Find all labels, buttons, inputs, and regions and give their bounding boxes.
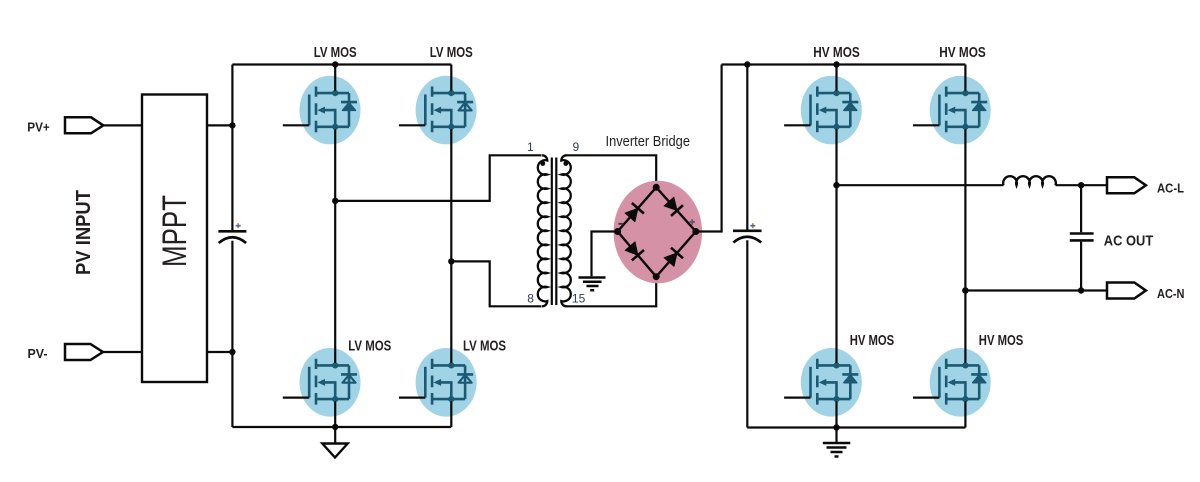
wire C3 branch top (1080, 185, 1082, 232)
svg-text:LV MOS: LV MOS (430, 44, 473, 61)
node HV leg1 midpoint (833, 182, 839, 188)
svg-text:1: 1 (527, 140, 534, 154)
connector J2 PV- (65, 344, 103, 360)
wire LV leg2 (450, 65, 452, 91)
svg-text:9: 9 (572, 140, 579, 154)
node HV bottom rail junction (833, 424, 839, 430)
svg-text:PV-: PV- (28, 346, 48, 361)
svg-text:LV MOS: LV MOS (348, 337, 391, 354)
transistor Q8 HV MOS lower-right (913, 348, 991, 417)
svg-text:HV MOS: HV MOS (850, 332, 895, 349)
connector J1 PV+ (65, 117, 103, 133)
wire HV leg2 mid to AC-N (965, 289, 1107, 291)
wire HV leg1 mid to inductor (837, 184, 1004, 186)
connector J3 AC-L (1107, 177, 1146, 193)
ground earth (HV) (835, 428, 837, 444)
wire C2 branch (746, 65, 748, 230)
svg-text:PV+: PV+ (27, 120, 50, 135)
diode D2 (top to right) (663, 196, 683, 216)
wire LV leg1 mid to transformer pin1 (335, 155, 541, 201)
wire HV top rail (722, 63, 966, 65)
svg-text:AC-N: AC-N (1157, 286, 1185, 301)
svg-text:AC OUT: AC OUT (1104, 233, 1153, 250)
svg-text:HV MOS: HV MOS (979, 332, 1024, 349)
label C2 plus (752, 223, 754, 228)
inverter bridge D1-D4 highlight (614, 181, 703, 284)
wire PV+ to MPPT (103, 124, 142, 126)
transistor Q3 LV MOS lower-left (283, 348, 361, 417)
ground earth (bridge) (579, 276, 606, 279)
node HV leg2 midpoint (962, 287, 968, 293)
transistor Q5 HV MOS upper-left (784, 76, 862, 145)
wire LV leg1 (334, 65, 336, 91)
MPPT block U1 (142, 95, 207, 383)
node MPPT out+ junction (229, 122, 235, 128)
node LV leg2 midpoint (448, 258, 454, 264)
inductor L1 (1003, 176, 1056, 185)
node T1 secondary polarity dot (563, 161, 568, 166)
node bridge top (653, 184, 660, 191)
node LV top rail junction (332, 61, 338, 67)
capacitor C2 (HV bus electrolytic) (733, 230, 762, 233)
svg-text:HV MOS: HV MOS (813, 44, 860, 61)
svg-text:PV INPUT: PV INPUT (73, 190, 95, 275)
svg-text:8: 8 (527, 291, 534, 305)
transistor Q4 LV MOS lower-right (399, 348, 477, 417)
wire LV top rail (232, 63, 451, 65)
transistor Q2 LV MOS upper-right (399, 76, 477, 145)
transistor Q7 HV MOS lower-left (784, 348, 862, 417)
label bridge minus sign (618, 223, 623, 225)
svg-text:MPPT: MPPT (156, 195, 194, 267)
node bridge plus (692, 228, 699, 235)
diode D4 (bottom to right) (663, 248, 683, 268)
label MPPT (156, 195, 194, 267)
node MPPT out- junction (229, 349, 235, 355)
node T1 primary polarity dot (540, 161, 545, 166)
node C2 top junction (744, 61, 750, 67)
svg-text:LV MOS: LV MOS (314, 44, 357, 61)
capacitor C3 (AC filter) (1070, 232, 1094, 235)
wire T1 pin9 to bridge top (567, 155, 657, 187)
transistor Q6 HV MOS upper-right (913, 76, 991, 145)
node HV leg2 AC-N junction (962, 287, 968, 293)
wire MPPT out- (207, 351, 232, 353)
node bridge minus (614, 228, 621, 235)
wire C3 branch bottom (1080, 242, 1082, 291)
wire MPPT out+ (207, 124, 232, 126)
node bridge bottom (653, 273, 660, 280)
transformer T1 primary winding (538, 155, 547, 306)
node HV leg1 top junction (833, 61, 839, 67)
label bridge plus sign (689, 219, 695, 225)
svg-text:AC-L: AC-L (1157, 181, 1184, 196)
label PV INPUT (73, 190, 95, 275)
diode D1 (left to top) (624, 203, 644, 223)
wire HV bottom rail (747, 426, 965, 428)
wire HV leg2 (964, 65, 966, 91)
diode D3 (left to bottom) (624, 241, 644, 261)
node AC-L junction (1078, 182, 1084, 188)
svg-text:Inverter Bridge: Inverter Bridge (606, 133, 691, 150)
wire LV bottom rail (232, 426, 451, 428)
connector J4 AC-N (1107, 283, 1146, 299)
svg-text:HV MOS: HV MOS (939, 44, 986, 61)
svg-text:LV MOS: LV MOS (463, 337, 506, 354)
wire inductor to AC-L (1056, 184, 1108, 186)
transformer T1 core (551, 158, 553, 306)
node LV leg1 midpoint (332, 198, 338, 204)
wire PV- to MPPT (103, 351, 142, 353)
ground chassis (LV) (334, 427, 336, 444)
wire HV leg1 (835, 65, 837, 91)
wire LV leg2 mid to transformer pin8 (451, 261, 541, 306)
wire bridge plus to HV top rail (696, 65, 722, 232)
wire T1 pin15 to bridge bottom (567, 277, 657, 307)
transformer T1 secondary winding (561, 155, 570, 306)
wire bridge minus to ground (592, 232, 618, 277)
node C3 AC-N junction (1078, 287, 1084, 293)
svg-text:15: 15 (572, 291, 586, 305)
label C1 plus (237, 223, 239, 228)
wire bridge diamond (618, 187, 696, 276)
wire DC bus rail left vertical (231, 65, 233, 231)
capacitor C1 (bus electrolytic) (218, 230, 246, 233)
node LV bottom rail junction (332, 424, 338, 430)
transistor Q1 LV MOS upper-left (283, 76, 361, 145)
